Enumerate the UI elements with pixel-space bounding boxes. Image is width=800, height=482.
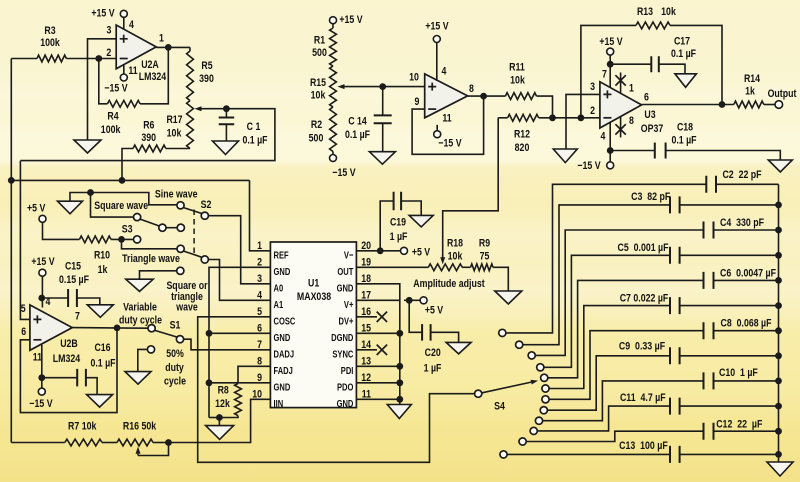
svg-text:C7 0.022 µF: C7 0.022 µF	[620, 292, 669, 304]
svg-text:R13: R13	[637, 6, 653, 18]
wire PDI pin13	[356, 365, 399, 367]
svg-text:C13 100 µF: C13 100 µF	[619, 440, 668, 452]
svg-text:V−: V−	[344, 250, 354, 262]
wire S4 contact to C4	[536, 230, 704, 355]
svg-text:C4 330 pF: C4 330 pF	[720, 217, 764, 229]
node GND pin6	[206, 330, 213, 337]
svg-text:8: 8	[469, 83, 474, 95]
svg-text:C12 22 µF: C12 22 µF	[716, 418, 762, 430]
switch S3 lever	[141, 219, 160, 226]
capacitor C5	[670, 247, 680, 264]
capacitor C17	[610, 63, 651, 65]
svg-text:+5 V: +5 V	[27, 202, 46, 214]
svg-text:U2B: U2B	[60, 338, 78, 350]
svg-text:R14: R14	[744, 73, 761, 85]
node C6 right bus	[775, 277, 782, 284]
wire square-or-triangle to ground	[140, 271, 177, 279]
op-amp U2A	[116, 25, 156, 69]
svg-text:R6: R6	[143, 119, 154, 131]
resistor R1	[332, 24, 334, 28]
svg-text:S2: S2	[201, 199, 212, 211]
wire S4 contact to C5	[544, 255, 670, 367]
switch S4 contact 11	[519, 438, 526, 445]
switch S2 pole1 lever	[184, 208, 202, 214]
wire R12 left to amplitude wiper	[443, 118, 499, 260]
svg-text:C11 4.7 µF: C11 4.7 µF	[620, 392, 666, 404]
wire U2B feedback loop	[20, 328, 117, 413]
svg-text:GND: GND	[274, 332, 291, 344]
wiper arrow R16	[137, 454, 139, 456]
capacitor C20	[409, 300, 422, 332]
svg-text:12k: 12k	[215, 398, 230, 410]
X mark DV+ pin16	[356, 316, 377, 318]
node R11-R12	[549, 114, 556, 121]
node R10 right	[118, 236, 125, 243]
node U3 +15V	[609, 55, 611, 87]
svg-text:A1: A1	[274, 299, 284, 311]
svg-text:4: 4	[442, 65, 448, 77]
terminal +15V R1	[330, 17, 337, 24]
switch S4 contact 6	[542, 385, 549, 392]
svg-text:R18: R18	[447, 237, 463, 249]
svg-text:SYNC: SYNC	[332, 349, 353, 361]
ground square/sine select	[58, 201, 83, 214]
wiper arrow R18 (from R12 net)	[442, 255, 444, 257]
svg-text:IIN: IIN	[274, 398, 284, 410]
svg-text:wave: wave	[175, 302, 197, 314]
wire S4 contact to C12	[527, 431, 704, 441]
node C14 top	[379, 83, 386, 90]
node C9 right bus	[775, 352, 782, 359]
svg-text:R11: R11	[509, 61, 525, 73]
svg-text:S1: S1	[170, 319, 181, 331]
switch S4 contact 5	[541, 374, 548, 381]
capacitor C1	[225, 109, 227, 118]
node C1 top	[223, 105, 230, 112]
wire buffer output	[468, 95, 506, 97]
svg-text:−15 V: −15 V	[29, 398, 53, 410]
wire U3 output	[642, 104, 734, 106]
ground C17	[675, 74, 697, 88]
wire capacitor-bank right bus	[778, 184, 780, 462]
wire U2A + input to ground	[88, 39, 117, 140]
svg-text:0.1 µF: 0.1 µF	[242, 134, 267, 146]
svg-text:Sine wave: Sine wave	[155, 189, 198, 201]
X mark SYNC pin14	[356, 349, 377, 351]
switch S2 gang dashed line	[193, 210, 195, 256]
svg-text:DV+: DV+	[339, 316, 354, 328]
svg-text:C17: C17	[674, 36, 690, 48]
svg-text:1 µF: 1 µF	[424, 363, 442, 375]
node C8 right bus	[775, 327, 782, 334]
svg-text:390: 390	[141, 132, 156, 144]
svg-text:R5: R5	[201, 60, 212, 72]
resistor R5	[189, 47, 191, 51]
wire S4 contact to C8	[550, 331, 704, 400]
capacitor C16	[42, 377, 77, 379]
offset pin 8 X mark U3	[620, 117, 622, 138]
potentiometer R16	[117, 439, 153, 446]
svg-text:+15 V: +15 V	[91, 7, 115, 19]
node C13 right bus	[775, 451, 782, 458]
wire S2 pole2 to A1	[209, 260, 271, 301]
wire bus1 to U2B + input	[20, 161, 30, 320]
svg-text:11: 11	[33, 352, 42, 364]
svg-text:C19: C19	[390, 216, 406, 228]
node GND pin9	[206, 379, 213, 386]
svg-text:500: 500	[309, 132, 324, 144]
terminal +5V pin20	[401, 247, 408, 254]
svg-text:0.1 µF: 0.1 µF	[671, 135, 696, 147]
wire S4 contact to C6	[548, 280, 703, 377]
node sine-square ground tie	[87, 189, 94, 196]
svg-text:R1: R1	[314, 34, 325, 46]
node buffer output	[480, 93, 487, 100]
terminal +15V buffer	[436, 43, 438, 81]
node R16 output	[165, 439, 172, 446]
switch S4 contact 3	[528, 352, 535, 359]
node R6 to REF bus	[119, 177, 126, 184]
switch S4 contact 4	[537, 364, 544, 371]
svg-text:11: 11	[442, 113, 451, 125]
svg-text:100k: 100k	[101, 124, 121, 136]
wire R16 wiper tie	[138, 443, 169, 456]
svg-text:1 µF: 1 µF	[390, 231, 408, 243]
svg-text:OUT: OUT	[337, 266, 353, 278]
svg-text:R2: R2	[311, 119, 322, 131]
wire R10 to triangle contact	[122, 239, 177, 248]
svg-text:U1: U1	[308, 278, 319, 290]
svg-text:COSC: COSC	[274, 316, 296, 328]
svg-text:100k: 100k	[40, 37, 60, 49]
svg-text:C20: C20	[425, 347, 441, 359]
terminal +15V U2A	[123, 17, 125, 29]
svg-text:−15 V: −15 V	[577, 160, 601, 172]
svg-text:R16 50k: R16 50k	[123, 421, 157, 433]
terminal -15V R2	[332, 152, 334, 155]
wiper arrow R15	[345, 86, 383, 88]
node U2A inverting input	[95, 55, 102, 62]
svg-text:1k: 1k	[98, 264, 108, 276]
terminal +5V R10	[39, 215, 46, 222]
capacitor C2	[706, 176, 716, 193]
svg-text:3: 3	[107, 24, 112, 36]
svg-text:7: 7	[257, 339, 262, 351]
svg-text:R3: R3	[44, 25, 55, 37]
switch S4 contact 10	[530, 427, 537, 434]
svg-text:Variable: Variable	[123, 302, 157, 314]
svg-text:C 14: C 14	[348, 115, 367, 127]
resistor R8	[238, 366, 270, 383]
wire S1 to DADJ	[184, 339, 270, 350]
wire U2A output	[156, 46, 190, 48]
switch S3 square wave contact	[134, 214, 141, 221]
svg-text:GND: GND	[337, 398, 354, 410]
node U3 output	[719, 101, 726, 108]
svg-text:500: 500	[312, 47, 327, 59]
wire S4 contact to C2	[506, 184, 706, 333]
node C4 right bus	[775, 227, 782, 234]
svg-text:duty cycle: duty cycle	[119, 315, 162, 327]
svg-text:A0: A0	[274, 283, 284, 295]
wire GND pin9	[209, 382, 270, 384]
svg-text:C18: C18	[677, 121, 693, 133]
node pin13	[396, 363, 403, 370]
svg-text:390: 390	[199, 73, 214, 85]
svg-text:4: 4	[600, 131, 606, 143]
node U2A output	[165, 44, 172, 51]
resistor R3	[37, 55, 66, 62]
svg-text:R15: R15	[310, 77, 326, 89]
svg-text:PDI: PDI	[341, 365, 354, 377]
wire DGND pin15	[356, 332, 399, 334]
svg-text:3: 3	[257, 273, 262, 285]
node pin11	[396, 396, 403, 403]
svg-text:−15 V: −15 V	[438, 137, 462, 149]
svg-text:1: 1	[159, 32, 164, 44]
node U2B +15V	[38, 295, 45, 302]
ground C20	[446, 342, 471, 354]
svg-text:0.1 µF: 0.1 µF	[90, 357, 115, 369]
switch S1 lever	[155, 330, 177, 337]
switch S2 pole2 lever	[184, 251, 202, 257]
offset pin 1 X mark U3	[620, 73, 622, 94]
svg-text:11: 11	[128, 65, 137, 77]
IC U1 pin names and numbers	[252, 240, 371, 410]
wire buffer feedback loop	[412, 96, 484, 154]
wire sine-square ground net	[70, 193, 176, 205]
wire S4 contact to C13	[508, 453, 671, 455]
wire +15V to U2B pin4	[41, 276, 43, 307]
svg-text:820: 820	[515, 142, 530, 154]
node REF-bus junction	[8, 177, 15, 184]
ground capacitor bank	[767, 462, 793, 476]
svg-text:R7 10k: R7 10k	[68, 421, 97, 433]
svg-text:10k: 10k	[167, 127, 182, 139]
svg-text:R8: R8	[218, 385, 229, 397]
svg-text:U3: U3	[644, 109, 655, 121]
switch S4 wiper arrow	[482, 382, 531, 393]
ground square-or-triangle	[126, 279, 153, 291]
capacitor C10	[704, 372, 714, 389]
svg-text:S4: S4	[494, 400, 505, 412]
IC U1 MAX038 body	[270, 242, 356, 408]
node U3 -15V	[607, 147, 614, 154]
svg-text:C5 0.001 µF: C5 0.001 µF	[618, 242, 669, 254]
svg-text:Amplitude adjust: Amplitude adjust	[413, 278, 485, 290]
capacitor C6	[704, 272, 714, 289]
svg-text:8: 8	[629, 115, 634, 127]
svg-text:U2A: U2A	[141, 59, 159, 71]
wire REF bus to R3 and R7 (left vertical)	[10, 59, 12, 443]
wire S4 contact to C10	[543, 381, 704, 421]
wire R15 wiper to buffer + input	[383, 86, 425, 88]
svg-text:+15 V: +15 V	[31, 256, 55, 268]
capacitor C11	[670, 398, 680, 415]
terminal +5V pin17	[420, 297, 427, 304]
svg-text:9: 9	[415, 96, 420, 108]
svg-text:R4: R4	[107, 110, 119, 122]
svg-text:0.1 µF: 0.1 µF	[345, 129, 370, 141]
wire S4 contact to C11	[538, 406, 670, 431]
svg-text:Output: Output	[768, 88, 797, 100]
switch S4 contact 2	[516, 341, 523, 348]
wire IIN pin10 from R16	[169, 399, 271, 442]
ground R9	[495, 291, 522, 304]
svg-text:R17: R17	[166, 114, 182, 126]
svg-text:LM324: LM324	[139, 71, 167, 83]
node C7 right bus	[775, 302, 782, 309]
wire COSC pin5 to S4 wiper	[198, 317, 475, 463]
svg-text:+15 V: +15 V	[425, 21, 449, 33]
switch S4 contact 8	[540, 407, 547, 414]
wiper arrow R17	[202, 108, 227, 110]
node C10 right bus	[775, 378, 782, 385]
svg-text:−15 V: −15 V	[104, 82, 128, 94]
wire V+ pin17	[356, 299, 400, 301]
node pin20	[377, 247, 384, 254]
capacitor C13	[670, 446, 680, 463]
svg-text:6: 6	[644, 91, 649, 103]
svg-text:7: 7	[602, 68, 607, 80]
switch S3 lower contact	[134, 236, 141, 243]
svg-text:C2 22 pF: C2 22 pF	[722, 169, 761, 181]
svg-text:Triangle wave: Triangle wave	[122, 253, 180, 265]
ground C1	[213, 141, 239, 155]
wire U3 -15V rail	[609, 122, 611, 161]
switch S2 pole2 common	[201, 256, 208, 263]
capacitor C3	[670, 196, 680, 213]
resistor R13 feedback	[581, 25, 636, 117]
switch S4 contact 7	[542, 396, 549, 403]
resistor R11	[505, 93, 536, 100]
svg-text:GND: GND	[274, 382, 291, 394]
potentiometer R15	[330, 66, 337, 107]
capacitor C12	[704, 423, 714, 440]
ground digital pins	[387, 405, 411, 419]
svg-text:4: 4	[257, 290, 263, 302]
svg-text:S3: S3	[122, 223, 133, 235]
terminal -15V U2B	[38, 388, 45, 395]
svg-text:50%: 50%	[166, 348, 184, 360]
ground C14	[369, 152, 395, 165]
svg-text:75: 75	[480, 250, 490, 262]
resistor R9	[462, 266, 470, 268]
triangle wave contact S2	[177, 245, 184, 252]
switch S1 moving contact	[176, 336, 183, 343]
terminal +15V U3	[607, 48, 614, 55]
svg-text:GND: GND	[337, 283, 354, 295]
wire S1 50% contact to ground	[138, 349, 147, 371]
node U2B output	[114, 325, 121, 332]
svg-text:REF: REF	[274, 250, 290, 262]
switch S3 middle contact	[159, 224, 166, 231]
ground C15	[87, 305, 113, 318]
capacitor C7	[670, 297, 680, 314]
wire OUT pin19 to R18	[356, 266, 428, 268]
switch S4 contact 9	[535, 417, 542, 424]
svg-text:7: 7	[75, 310, 80, 322]
ground U1 GND pins	[206, 426, 234, 440]
switch S4 contact 12	[500, 451, 507, 458]
node pin15	[396, 330, 403, 337]
switch S3 right contact	[177, 224, 184, 231]
svg-text:5: 5	[21, 303, 26, 315]
svg-text:+15 V: +15 V	[339, 14, 363, 26]
op-amp U2B	[30, 305, 72, 350]
ground U3 + input	[553, 149, 577, 163]
ground C18	[768, 160, 792, 172]
capacitor C14	[382, 87, 384, 116]
wire U3 + input to ground	[566, 94, 600, 149]
svg-text:10k: 10k	[311, 89, 326, 101]
svg-text:10k: 10k	[661, 6, 676, 18]
switch S4 wiper terminal	[475, 390, 482, 397]
node C3 right bus	[775, 202, 782, 209]
switch S1 50% contact	[147, 346, 154, 353]
resistor R4 feedback	[99, 59, 108, 104]
svg-text:DADJ: DADJ	[274, 349, 295, 361]
svg-text:C8 0.068 µF: C8 0.068 µF	[721, 318, 772, 330]
wire to square wave contact	[91, 193, 134, 218]
wire S4 contact to C9	[548, 356, 670, 410]
ground U2A + input	[74, 140, 101, 153]
capacitor C8	[704, 322, 714, 339]
svg-text:R12: R12	[514, 128, 530, 140]
svg-text:FADJ: FADJ	[274, 365, 293, 377]
svg-text:4: 4	[46, 296, 52, 308]
switch S1 common contact	[148, 325, 155, 332]
switch S2 pole1 common	[201, 212, 208, 219]
wire U2B -15V rail	[41, 345, 43, 388]
svg-text:3: 3	[590, 81, 595, 93]
wire V- pin20 rail	[356, 250, 400, 252]
svg-text:GND: GND	[274, 266, 291, 278]
node pin17 +5V	[406, 297, 413, 304]
wire PDO pin12	[356, 382, 399, 384]
svg-text:Square wave: Square wave	[94, 200, 148, 212]
node U2B pin11	[38, 374, 45, 381]
op-amp U3	[600, 82, 642, 128]
capacitor C18	[610, 150, 655, 152]
svg-text:+5 V: +5 V	[425, 305, 444, 317]
svg-text:cycle: cycle	[164, 375, 186, 387]
resistor R2	[330, 107, 337, 152]
terminal -15V buffer	[436, 125, 438, 131]
wire GND pin6	[209, 332, 270, 334]
wire S4 contact to C3	[523, 205, 670, 345]
wire bus2 REF net horizontal	[11, 179, 249, 181]
svg-text:6: 6	[21, 326, 26, 338]
switch S4 contact 1	[499, 329, 506, 336]
capacitor C9	[670, 347, 680, 364]
op-amp U2 buffer	[425, 74, 468, 118]
sine wave contact S2	[177, 202, 184, 209]
resistor R12	[498, 117, 507, 119]
resistor R7	[11, 442, 65, 444]
svg-text:2: 2	[106, 47, 111, 59]
wire S2 pole1 to A0	[209, 216, 271, 284]
capacitor C15	[42, 297, 68, 299]
svg-text:C6 0.0047 µF: C6 0.0047 µF	[720, 267, 776, 279]
node pin12	[396, 379, 403, 386]
node R13 left	[578, 114, 585, 121]
svg-text:+5 V: +5 V	[412, 247, 431, 259]
svg-text:C 1: C 1	[247, 121, 261, 133]
svg-text:C16: C16	[94, 342, 110, 354]
svg-text:DGND: DGND	[331, 332, 354, 344]
terminal +15V U2B	[39, 269, 46, 276]
